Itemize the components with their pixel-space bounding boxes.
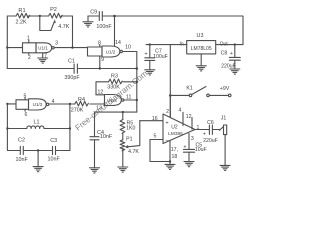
- pin 5 minus input wire: [150, 139, 163, 141]
- svg-text:8: 8: [98, 41, 101, 47]
- wire In: [146, 44, 187, 46]
- pin 12 stub: [191, 118, 193, 130]
- svg-text:220uF: 220uF: [203, 138, 218, 144]
- wire C2 to C3: [24, 150, 52, 152]
- pin 4 stub: [182, 112, 184, 125]
- svg-text:330K: 330K: [107, 84, 120, 90]
- svg-text:K1: K1: [186, 86, 192, 92]
- svg-text:−: −: [165, 138, 168, 144]
- svg-text:C3: C3: [50, 138, 57, 144]
- node A U1/1 input junction: [6, 46, 8, 48]
- pin 7 ground of U1/1: [42, 53, 44, 58]
- pin 14 wire up: [114, 16, 116, 46]
- wire R1 to P2: [28, 15, 49, 17]
- op-amp U1/1 nand gate: [23, 43, 37, 53]
- svg-text:4.7K: 4.7K: [58, 24, 69, 30]
- svg-text:16: 16: [152, 116, 158, 122]
- svg-text:P2: P2: [50, 7, 57, 13]
- resistor R1: [16, 13, 30, 18]
- wire C6 to J1: [213, 129, 220, 131]
- svg-text:6: 6: [24, 112, 27, 118]
- svg-text:J1: J1: [221, 116, 227, 122]
- svg-text:C2: C2: [18, 137, 25, 143]
- svg-text:U1/4: U1/4: [107, 98, 117, 103]
- ground for C9: [87, 16, 89, 22]
- svg-text:3: 3: [191, 136, 194, 142]
- node junction pin14: [113, 15, 116, 18]
- capacitor C6: [208, 125, 210, 134]
- svg-text:R4: R4: [78, 97, 85, 103]
- node pin9 junction: [99, 67, 101, 69]
- svg-text:10nF: 10nF: [100, 134, 113, 140]
- svg-text:P1: P1: [126, 136, 132, 142]
- svg-text:9: 9: [101, 57, 104, 63]
- wire C1 to node: [78, 68, 137, 70]
- capacitor C2: [19, 146, 21, 154]
- svg-text:10nF: 10nF: [16, 157, 29, 163]
- svg-text:+9V: +9V: [220, 86, 230, 92]
- wire C3 to right vertical: [56, 150, 70, 152]
- op-amp U1/3 nand gate: [16, 100, 29, 110]
- wire to U1/3: [7, 103, 16, 105]
- wire U1/1 output to U1/2 input: [54, 47, 87, 49]
- svg-text:+: +: [203, 131, 206, 137]
- node L1 right junction: [69, 127, 71, 129]
- node C1/R3 junction: [136, 67, 139, 70]
- svg-text:2: 2: [166, 109, 169, 115]
- capacitor C4: [90, 136, 99, 138]
- svg-text:U1/1: U1/1: [38, 46, 48, 51]
- wire top rail to right: [103, 16, 243, 45]
- pin 17 18 ground stub: [169, 140, 171, 164]
- svg-text:10: 10: [125, 45, 131, 51]
- capacitor C7: [149, 45, 151, 58]
- node junction R1/P2 wiper: [39, 15, 41, 17]
- svg-text:U1/3: U1/3: [33, 102, 43, 107]
- wire top-left rail: [7, 16, 16, 69]
- svg-text:13: 13: [96, 106, 102, 112]
- potentiometer P2: [49, 13, 63, 18]
- svg-text:220uF: 220uF: [221, 63, 236, 69]
- svg-text:+: +: [165, 120, 168, 126]
- svg-text:+: +: [230, 51, 233, 57]
- svg-text:4: 4: [178, 108, 181, 114]
- capacitor C8: [234, 43, 236, 45]
- resistor R3: [96, 82, 109, 95]
- svg-text:5: 5: [154, 134, 157, 140]
- op-amp U2 LM386: [163, 114, 195, 144]
- switch K1: [169, 94, 172, 97]
- wire U1/3 out to R4: [49, 103, 75, 105]
- wire Out: [216, 44, 243, 46]
- node junction P2/U1 out: [71, 46, 73, 48]
- ground under U3: [200, 54, 202, 66]
- capacitor C3: [52, 146, 54, 154]
- svg-text:12: 12: [186, 114, 192, 120]
- capacitor C1: [73, 64, 75, 73]
- svg-text:18: 18: [172, 154, 178, 160]
- svg-text:3: 3: [55, 40, 58, 46]
- svg-text:U2: U2: [171, 125, 178, 131]
- svg-text:10nF: 10nF: [48, 157, 61, 163]
- svg-text:14: 14: [115, 40, 121, 46]
- wiper wire P1 to U2: [127, 121, 140, 147]
- svg-text:R1: R1: [18, 8, 25, 14]
- wire U1/2 out down: [122, 52, 136, 113]
- svg-text:C8: C8: [221, 50, 228, 56]
- pin 2 supply wire from K1: [169, 95, 171, 117]
- svg-text:+: +: [144, 52, 147, 58]
- inductor L1: [7, 128, 26, 130]
- connector J1: [219, 127, 223, 131]
- svg-text:LM386: LM386: [168, 131, 183, 137]
- node U1/3 input junction: [6, 103, 8, 105]
- svg-text:U1/2: U1/2: [106, 49, 116, 54]
- wire tank right vertical: [69, 104, 71, 151]
- svg-text:L1: L1: [34, 119, 40, 125]
- wire feedback loop U2: [150, 140, 170, 162]
- wire + input U2: [140, 120, 163, 122]
- svg-text:R3: R3: [111, 74, 118, 80]
- svg-text:17,: 17,: [171, 147, 178, 153]
- pin 3 wire to C5: [188, 133, 190, 149]
- svg-text:390pF: 390pF: [64, 75, 80, 81]
- wire P2 right down to gate output node: [61, 16, 73, 48]
- ground: [38, 58, 48, 63]
- wire U1/4 out: [124, 99, 137, 101]
- resistor R4: [75, 101, 89, 106]
- wire to U1/1 input: [7, 47, 22, 49]
- svg-text:1: 1: [27, 36, 30, 42]
- node L1 left junction: [6, 127, 8, 129]
- svg-text:4.7K: 4.7K: [128, 149, 139, 155]
- svg-text:LM78L05: LM78L05: [191, 46, 212, 52]
- svg-text:100nF: 100nF: [96, 24, 112, 30]
- svg-text:C1: C1: [68, 59, 75, 65]
- svg-text:C9: C9: [90, 10, 97, 16]
- svg-text:2.2K: 2.2K: [15, 20, 26, 26]
- svg-text:100uF: 100uF: [153, 54, 168, 60]
- resistor R5: [122, 111, 124, 113]
- capacitor C9: [88, 15, 99, 17]
- pin 9 wire down: [99, 56, 101, 69]
- potentiometer P1: [122, 133, 124, 140]
- wire U2 output: [195, 129, 209, 131]
- op-amp U1/2 nand gate: [88, 47, 103, 56]
- svg-text:270K: 270K: [71, 108, 84, 114]
- svg-text:1K0: 1K0: [126, 126, 135, 132]
- svg-text:12: 12: [98, 89, 104, 95]
- svg-text:5: 5: [23, 93, 26, 99]
- svg-text:C6: C6: [207, 120, 214, 126]
- svg-text:U3: U3: [197, 33, 204, 39]
- wire tank left rail: [7, 104, 19, 151]
- op-amp U1/4 nand gate: [105, 95, 122, 106]
- node tank junction: [69, 103, 71, 105]
- wire left rail to C1: [7, 68, 73, 70]
- svg-text:10uF: 10uF: [195, 147, 207, 153]
- svg-text:2: 2: [28, 55, 31, 61]
- regulator U3: [187, 41, 216, 54]
- node ground tap junction: [37, 149, 39, 151]
- wire feedback row: [95, 112, 137, 136]
- svg-text:1: 1: [196, 125, 199, 131]
